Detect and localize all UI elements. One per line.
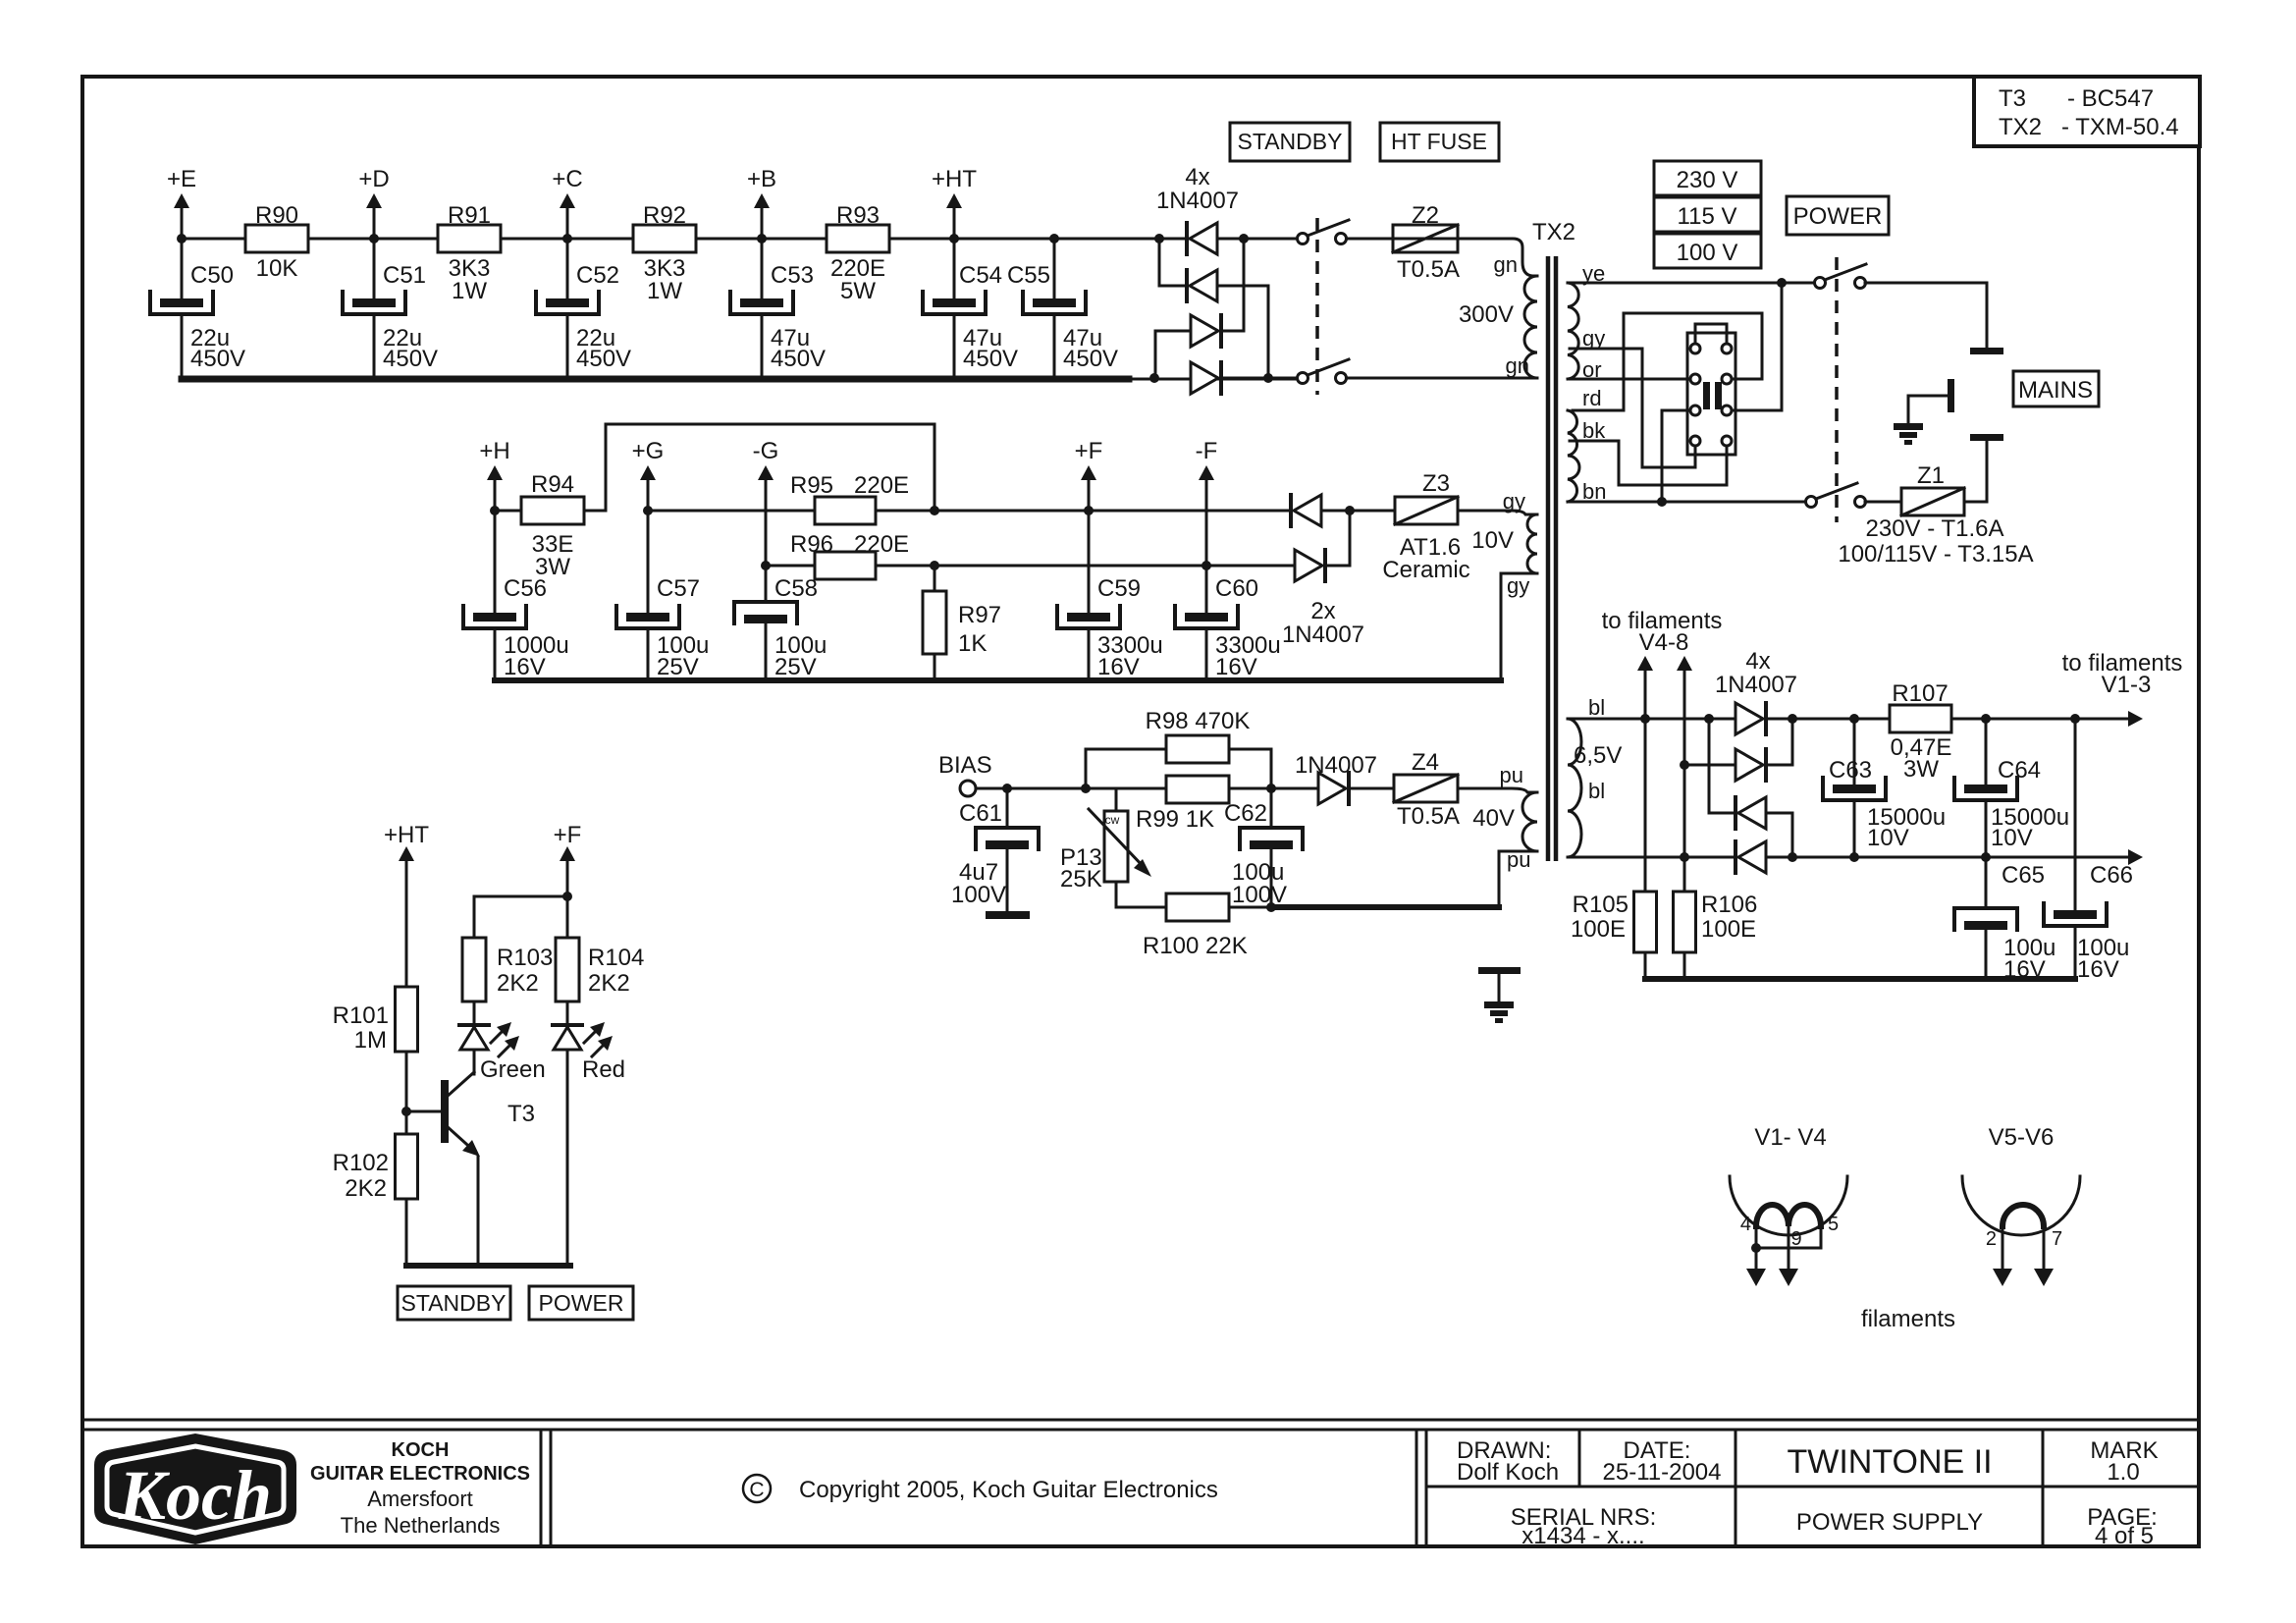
wire filament row3 [1709, 812, 1738, 815]
filament bridge diode D9 [1735, 703, 1763, 734]
TX2 300V secondary winding [1393, 239, 1537, 276]
svg-text:25V: 25V [774, 654, 817, 680]
svg-text:Dolf Koch: Dolf Koch [1457, 1459, 1559, 1486]
svg-text:40V: 40V [1472, 805, 1515, 832]
svg-text:100E: 100E [1571, 916, 1626, 943]
svg-text:T3: T3 [507, 1101, 535, 1127]
svg-text:16V: 16V [504, 654, 546, 680]
svg-text:gn: gn [1506, 353, 1529, 378]
svg-text:C60: C60 [1215, 575, 1258, 602]
filament bridge diode D12 [1734, 841, 1737, 873]
resistor R107 0,47E 3W [1890, 705, 1951, 732]
fuse Z2 T0.5A [1347, 238, 1393, 241]
svg-text:Red: Red [582, 1056, 625, 1083]
wire bk tap to selector pin R4 [1570, 441, 1727, 485]
svg-text:HT FUSE: HT FUSE [1391, 129, 1487, 154]
svg-text:C51: C51 [383, 262, 426, 289]
mains pin (neutral) [1970, 434, 2003, 441]
svg-text:C63: C63 [1829, 757, 1872, 784]
svg-text:gy: gy [1503, 489, 1525, 514]
svg-text:300V: 300V [1459, 301, 1514, 328]
mains pin (line) [1970, 348, 2003, 354]
LED Green [473, 1001, 476, 1025]
bridge diode D4 (bottom) [1191, 362, 1218, 394]
resistor R94 33E 3W [521, 497, 584, 524]
resistor R100 22K [1116, 882, 1166, 907]
power switch dashed link [1835, 257, 1839, 522]
diode D5 (2x 1N4007 upper) [1289, 495, 1293, 526]
svg-text:bn: bn [1582, 479, 1606, 504]
svg-text:+C: +C [552, 166, 582, 192]
wire bias line [976, 787, 1318, 790]
HT FUSE label box [1380, 123, 1499, 161]
filament bridge diode D11 [1734, 797, 1737, 829]
TX2 40V winding [1458, 788, 1537, 792]
svg-text:STANDBY: STANDBY [401, 1290, 507, 1316]
wire bias return (thick) [1271, 904, 1499, 910]
info box T3/TX2 [1974, 77, 2200, 146]
wire ye to power switch [1568, 282, 1815, 285]
svg-text:T3: T3 [1999, 85, 2026, 112]
filament ground rail (thick) [1645, 976, 2075, 982]
capacitor C63 15000u/10V [1853, 719, 1856, 784]
capacitor C60 3300u/16V [1205, 566, 1208, 613]
middle ground rail (thick) [495, 677, 1501, 683]
STANDBY label box [398, 1286, 510, 1320]
wire rail -G/-F (lower) [766, 565, 815, 568]
svg-text:R99 1K: R99 1K [1136, 806, 1214, 833]
svg-text:R90: R90 [255, 202, 298, 229]
wire or tap to selector pin L2 [1570, 378, 1689, 381]
fuse Z4 T0.5A [1352, 787, 1394, 790]
power switch (upper pole) [1815, 278, 1826, 289]
resistor R105 100E [1634, 892, 1657, 952]
svg-text:R94: R94 [531, 471, 574, 498]
svg-text:TX2: TX2 [1999, 114, 2042, 140]
svg-text:R100 22K: R100 22K [1143, 933, 1248, 959]
svg-text:16V: 16V [1097, 654, 1140, 680]
svg-text:4x: 4x [1745, 648, 1770, 675]
svg-text:7: 7 [2052, 1228, 2062, 1250]
wire loop over R95 [606, 424, 934, 511]
svg-text:16V: 16V [2077, 956, 2119, 983]
selector jumper bars [1703, 382, 1710, 409]
svg-text:16V: 16V [1215, 654, 1257, 680]
svg-text:1K: 1K [958, 630, 987, 657]
bridge diode D2 [1158, 239, 1161, 286]
svg-text:R95: R95 [790, 472, 833, 499]
title block dividers [540, 1430, 543, 1546]
resistor R101 1M [396, 987, 418, 1052]
svg-text:C50: C50 [190, 262, 234, 289]
svg-text:C55: C55 [1007, 262, 1050, 289]
svg-text:TX2: TX2 [1532, 219, 1575, 245]
svg-text:-F: -F [1196, 438, 1218, 464]
svg-text:C59: C59 [1097, 575, 1141, 602]
svg-text:-G: -G [753, 438, 779, 464]
svg-text:4x: 4x [1185, 164, 1209, 190]
svg-text:1N4007: 1N4007 [1156, 188, 1239, 214]
svg-text:GUITAR ELECTRONICS: GUITAR ELECTRONICS [310, 1463, 530, 1485]
wire gy tap to selector pin L4 [1570, 349, 1695, 467]
ground (mains earth) [1894, 423, 1923, 430]
svg-text:gy: gy [1582, 326, 1605, 351]
wire: HT ground rail (thick) [182, 376, 1129, 383]
svg-text:C62: C62 [1224, 800, 1267, 827]
wire filament AC row1 [1568, 718, 1735, 721]
led light arrows (green) [491, 1026, 507, 1043]
svg-text:POWER: POWER [1793, 203, 1883, 230]
svg-text:115 V: 115 V [1678, 203, 1737, 230]
svg-text:C53: C53 [771, 262, 814, 289]
node +H rail arrow [494, 479, 497, 511]
svg-text:R97: R97 [958, 602, 1001, 628]
capacitor C51 22u/450V [373, 239, 376, 298]
svg-text:450V: 450V [190, 346, 245, 372]
wire top loop to selector pin R2 / rd tap [1573, 313, 1762, 410]
svg-text:C66: C66 [2090, 862, 2133, 889]
wire filament row1 DC+ [1766, 718, 1890, 721]
svg-text:1.0: 1.0 [2107, 1459, 2139, 1486]
standby switch dashed link [1315, 218, 1319, 395]
svg-text:- BC547: - BC547 [2067, 85, 2154, 112]
svg-text:25V: 25V [657, 654, 699, 680]
wire ye branch to selector pin R3 [1733, 283, 1782, 410]
wire bridge verticals [1791, 719, 1794, 765]
fuse Z1 [1901, 488, 1964, 515]
node +E rail arrow [181, 207, 184, 239]
svg-text:- TXM-50.4: - TXM-50.4 [2061, 114, 2179, 140]
resistor R96 220E [815, 552, 876, 579]
svg-text:bk: bk [1582, 418, 1606, 443]
node +D rail arrow [373, 207, 376, 239]
svg-text:STANDBY: STANDBY [1238, 129, 1343, 154]
node +HT rail arrow [953, 207, 956, 239]
resistor R99 1K [1166, 776, 1229, 803]
svg-text:10V: 10V [1867, 825, 1909, 851]
svg-text:Z1: Z1 [1917, 462, 1945, 489]
filament bridge diode D10 [1735, 749, 1763, 781]
svg-text:4 of 5: 4 of 5 [2095, 1523, 2154, 1549]
svg-text:10V: 10V [1471, 527, 1514, 554]
svg-text:R91: R91 [448, 202, 491, 229]
svg-text:2K2: 2K2 [345, 1175, 387, 1202]
STANDBY label box [1230, 123, 1350, 161]
svg-text:+F: +F [554, 822, 582, 848]
resistor R95 220E [815, 497, 876, 524]
svg-text:+E: +E [167, 166, 196, 192]
ground bar (C61) [986, 911, 1030, 919]
resistor R102 2K2 [396, 1134, 418, 1199]
svg-text:BIAS: BIAS [938, 752, 992, 779]
svg-text:V1-3: V1-3 [2102, 672, 2152, 698]
copyright [743, 1475, 771, 1502]
capacitor C56 1000u/16V [494, 511, 497, 613]
svg-text:T0.5A: T0.5A [1397, 803, 1460, 830]
svg-text:gy: gy [1507, 573, 1529, 598]
svg-text:R107: R107 [1892, 680, 1948, 707]
standby switch (lower pole) [1221, 377, 1298, 380]
svg-text:POWER: POWER [539, 1290, 624, 1316]
svg-text:TWINTONE II: TWINTONE II [1787, 1443, 1992, 1481]
svg-text:+F: +F [1075, 438, 1103, 464]
svg-text:R106: R106 [1701, 892, 1757, 918]
resistor R92 [633, 225, 696, 252]
svg-text:1M: 1M [354, 1027, 387, 1054]
svg-text:1N4007: 1N4007 [1282, 622, 1364, 648]
voltage selector block [1687, 333, 1735, 455]
svg-text:MAINS: MAINS [2018, 377, 2093, 404]
svg-text:450V: 450V [576, 346, 631, 372]
svg-text:Ceramic: Ceramic [1382, 557, 1469, 583]
wire switch to mains top pin [1865, 283, 1987, 348]
svg-text:2x: 2x [1310, 598, 1335, 624]
svg-text:Green: Green [480, 1056, 546, 1083]
voltage select labels 230V/115V/100V [1654, 161, 1761, 195]
svg-text:C58: C58 [774, 575, 818, 602]
svg-text:C64: C64 [1998, 757, 2041, 784]
transformer TX2 core [1546, 256, 1551, 861]
svg-text:Copyright 2005, Koch Guitar El: Copyright 2005, Koch Guitar Electronics [799, 1477, 1218, 1503]
svg-text:R96: R96 [790, 531, 833, 558]
svg-text:R103: R103 [497, 945, 553, 971]
capacitor C66 100u/16V [2074, 719, 2077, 910]
capacitor C61 4u7/100V [1006, 788, 1009, 828]
svg-text:5W: 5W [840, 278, 876, 304]
svg-text:bl: bl [1588, 779, 1605, 803]
svg-text:pu: pu [1500, 763, 1523, 787]
resistor R104 2K2 [556, 938, 579, 1001]
resistor R106 100E [1674, 892, 1696, 952]
LED Red [566, 1001, 569, 1025]
led section ground rail [406, 1263, 570, 1269]
svg-text:100 V: 100 V [1677, 240, 1738, 266]
svg-text:230 V: 230 V [1677, 167, 1738, 193]
svg-text:T0.5A: T0.5A [1397, 256, 1460, 283]
mains earth pin [1948, 379, 1954, 412]
svg-text:25K: 25K [1060, 866, 1102, 893]
capacitor C50 22u/450V [181, 239, 184, 298]
resistor R97 1K [934, 566, 936, 591]
svg-text:+B: +B [747, 166, 776, 192]
svg-text:100E: 100E [1701, 916, 1756, 943]
wire filament row4 / DC- [1568, 856, 1735, 859]
svg-text:230V - T1.6A: 230V - T1.6A [1866, 515, 2004, 542]
svg-text:R98 470K: R98 470K [1146, 708, 1251, 734]
svg-text:C54: C54 [959, 262, 1002, 289]
standby switch (upper pole) [1244, 238, 1298, 241]
node -G rail arrow [765, 479, 768, 566]
MAINS label box [2013, 371, 2099, 406]
svg-text:Z3: Z3 [1422, 470, 1450, 497]
svg-text:R93: R93 [836, 202, 880, 229]
svg-text:1W: 1W [647, 278, 682, 304]
svg-text:1W: 1W [452, 278, 487, 304]
node -F rail arrow [1205, 479, 1208, 566]
svg-text:filaments: filaments [1861, 1306, 1955, 1332]
svg-text:25-11-2004: 25-11-2004 [1603, 1459, 1722, 1486]
svg-text:R102: R102 [333, 1150, 389, 1176]
wire bn to power switch [1568, 501, 1806, 504]
node +C rail arrow [566, 207, 569, 239]
svg-text:The Netherlands: The Netherlands [341, 1513, 501, 1538]
svg-text:+H: +H [479, 438, 509, 464]
transistor T3 [441, 1080, 449, 1143]
resistor R103 2K2 [462, 938, 486, 1001]
svg-text:+HT: +HT [384, 822, 429, 848]
svg-text:POWER SUPPLY: POWER SUPPLY [1796, 1509, 1983, 1536]
diode 1N4007 (bias) [1318, 773, 1346, 804]
POWER label box [1787, 196, 1889, 235]
potentiometer P13 25K [1115, 788, 1118, 811]
wire rail +H/+G..+F (upper) [495, 510, 521, 513]
capacitor C65 100u/16V [1985, 857, 1988, 908]
bridge diode D3 [1243, 239, 1246, 331]
svg-text:450V: 450V [771, 346, 826, 372]
svg-text:pu: pu [1507, 847, 1530, 872]
svg-text:Z2: Z2 [1412, 202, 1439, 229]
svg-text:cw: cw [1105, 813, 1120, 827]
capacitor C57 100u/25V [647, 511, 650, 613]
svg-text:x1434 - x....: x1434 - x.... [1522, 1523, 1644, 1549]
wire bn branch to selector pin L3 [1662, 410, 1689, 502]
ground (bias) [1478, 967, 1521, 974]
svg-text:C61: C61 [959, 800, 1002, 827]
fuse Z3 AT1.6 Ceramic [1350, 510, 1395, 513]
wire filament row2 [1684, 764, 1735, 767]
svg-text:V1- V4: V1- V4 [1754, 1124, 1826, 1151]
power switch (lower pole) [1806, 497, 1817, 508]
node +G rail arrow [647, 479, 650, 511]
wire power switch to Z1 [1865, 501, 1901, 504]
svg-text:R104: R104 [588, 945, 644, 971]
svg-text:2K2: 2K2 [497, 970, 539, 997]
capacitor C52 22u/450V [566, 239, 569, 298]
svg-text:C56: C56 [504, 575, 547, 602]
svg-text:bl: bl [1588, 695, 1605, 720]
node +F rail arrow [1088, 479, 1091, 511]
svg-text:C65: C65 [2002, 862, 2045, 889]
svg-text:1N4007: 1N4007 [1715, 672, 1797, 698]
bridge diode D1 (top) [1154, 234, 1164, 243]
svg-text:100V: 100V [951, 882, 1006, 908]
svg-text:100/115V - T3.15A: 100/115V - T3.15A [1838, 541, 2033, 568]
svg-text:R101: R101 [333, 1002, 389, 1029]
svg-text:Z4: Z4 [1412, 749, 1439, 776]
svg-text:V4-8: V4-8 [1639, 629, 1689, 656]
svg-text:5: 5 [1828, 1214, 1839, 1235]
svg-text:Amersfoort: Amersfoort [367, 1487, 473, 1511]
svg-text:2: 2 [1986, 1228, 1997, 1250]
svg-text:+HT: +HT [932, 166, 977, 192]
svg-text:KOCH: KOCH [392, 1439, 450, 1461]
svg-text:V5-V6: V5-V6 [1989, 1124, 2055, 1151]
TX2 primary winding (taps ye/gy/or/rd/bk/bn) [1568, 283, 1578, 379]
capacitor C58 100u/25V [765, 566, 768, 602]
svg-text:R92: R92 [643, 202, 686, 229]
svg-text:3W: 3W [1903, 756, 1939, 783]
svg-text:10V: 10V [1991, 825, 2033, 851]
svg-text:220E: 220E [854, 472, 909, 499]
wire +F to R103 [474, 896, 567, 938]
svg-text:gn: gn [1494, 252, 1518, 277]
capacitor C53 47u/450V [761, 239, 764, 298]
svg-text:rd: rd [1582, 386, 1602, 410]
wire mains bottom pin to Z1 [1964, 441, 1987, 502]
POWER label box [529, 1286, 633, 1320]
capacitor C55 47u/450V [1053, 239, 1056, 298]
resistor R90 [245, 225, 308, 252]
capacitor C64 15000u/10V [1985, 719, 1988, 784]
svg-text:C: C [749, 1479, 764, 1501]
led light arrows (red) [584, 1026, 601, 1043]
svg-text:450V: 450V [383, 346, 438, 372]
svg-text:C57: C57 [657, 575, 700, 602]
svg-text:+G: +G [632, 438, 665, 464]
Koch logo badge [94, 1434, 296, 1544]
diode D6 (2x 1N4007 lower) [1295, 550, 1322, 581]
svg-text:220E: 220E [854, 531, 909, 558]
svg-text:R105: R105 [1573, 892, 1629, 918]
svg-text:10K: 10K [256, 255, 298, 282]
TX2 6.5V winding [1568, 719, 1581, 857]
svg-text:6,5V: 6,5V [1574, 742, 1622, 769]
svg-text:Koch: Koch [118, 1456, 272, 1535]
wire: main HT rail [182, 238, 1298, 241]
svg-text:450V: 450V [963, 346, 1018, 372]
capacitor C62 100u/100V [1270, 788, 1273, 828]
svg-text:1N4007: 1N4007 [1295, 752, 1377, 779]
svg-text:C52: C52 [576, 262, 619, 289]
capacitor C54 47u/450V [953, 239, 956, 298]
capacitor C59 3300u/16V [1088, 511, 1091, 613]
resistor R98 470K (feedback loop) [1086, 749, 1166, 788]
svg-text:4: 4 [1740, 1214, 1751, 1235]
resistor R93 [827, 225, 889, 252]
TX2 10V winding [1458, 511, 1537, 514]
resistor R91 [438, 225, 501, 252]
svg-text:450V: 450V [1063, 346, 1118, 372]
svg-text:100V: 100V [1232, 882, 1287, 908]
node +B rail arrow [761, 207, 764, 239]
svg-text:+D: +D [358, 166, 389, 192]
svg-text:2K2: 2K2 [588, 970, 630, 997]
